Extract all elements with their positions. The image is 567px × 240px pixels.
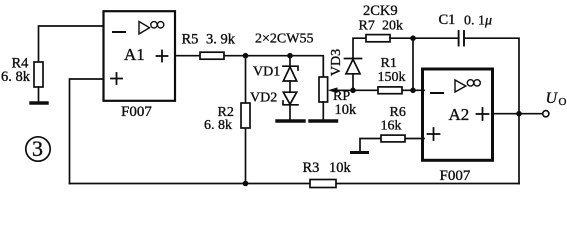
wire A1 inverting input to R4 xyxy=(39,26,104,62)
diode VD3 xyxy=(345,59,362,74)
svg-text:3: 3 xyxy=(32,136,43,161)
ground (VD2) xyxy=(277,119,304,122)
svg-text:R7: R7 xyxy=(359,19,375,34)
resistor R1 xyxy=(378,87,402,94)
svg-text:3. 9k: 3. 9k xyxy=(206,32,236,48)
node R7/C1 junction xyxy=(410,35,416,41)
svg-text:A1: A1 xyxy=(124,45,145,64)
node VD3 bottom junction xyxy=(350,88,356,94)
svg-text:R5: R5 xyxy=(182,32,199,48)
svg-text:R1: R1 xyxy=(381,56,397,71)
svg-text:2×2CW55: 2×2CW55 xyxy=(255,32,313,47)
op-amp A2 triangle-infinity symbol xyxy=(455,80,480,92)
wire RP wiper to R1 xyxy=(335,89,378,91)
wire R4 to ground xyxy=(38,87,40,102)
svg-text:16k: 16k xyxy=(381,119,402,134)
node R2-bottom junction xyxy=(243,181,249,187)
resistor R2 xyxy=(241,103,250,128)
node R7 branch junction at A2 input xyxy=(410,88,416,94)
wire A1 output to R5 xyxy=(175,55,200,57)
svg-text:R3: R3 xyxy=(303,160,320,176)
svg-text:10k: 10k xyxy=(329,160,352,176)
svg-text:C1: C1 xyxy=(439,12,456,28)
svg-text:2CK9: 2CK9 xyxy=(363,3,398,19)
wire R5 to RP top node rail xyxy=(224,56,323,77)
svg-text:U: U xyxy=(546,90,559,107)
svg-text:150k: 150k xyxy=(378,70,406,85)
svg-text:6. 8k: 6. 8k xyxy=(1,69,31,85)
svg-text:6. 8k: 6. 8k xyxy=(204,118,232,133)
resistor R7 xyxy=(366,35,390,42)
wire R2 branch xyxy=(245,56,247,184)
ground (R4) xyxy=(31,101,47,104)
svg-text:VD1: VD1 xyxy=(253,65,280,80)
svg-text:VD2: VD2 xyxy=(250,91,277,106)
svg-text:10k: 10k xyxy=(335,102,358,118)
wire R1 to A2 inverting input xyxy=(402,89,424,91)
ground (R6) xyxy=(352,151,368,154)
zener diode VD1 xyxy=(283,66,298,81)
svg-text:O: O xyxy=(559,96,567,108)
circled figure number 3 xyxy=(26,137,50,161)
resistor R6 xyxy=(381,135,405,142)
node A2 output junction xyxy=(516,111,522,117)
svg-text:0. 1μ: 0. 1μ xyxy=(464,14,492,29)
wire VD3 branch xyxy=(352,74,354,91)
ground (RP) xyxy=(310,119,337,122)
wire bottom feedback rail xyxy=(70,183,520,185)
wire R7 to C1 xyxy=(390,37,458,39)
svg-text:VD3: VD3 xyxy=(329,49,344,76)
svg-text:F007: F007 xyxy=(121,104,152,120)
wire A1 non-inverting input down-left to bottom rail xyxy=(70,79,104,184)
wire VD1 to VD2 xyxy=(289,81,291,92)
svg-text:A2: A2 xyxy=(449,105,470,124)
wire RP to ground xyxy=(322,102,324,120)
wire VD3 to R7 xyxy=(353,38,366,58)
node VD1 branch junction xyxy=(287,53,293,59)
node R2 branch junction xyxy=(243,53,249,59)
resistor R3 xyxy=(310,180,336,188)
wire A2 output to terminal xyxy=(493,113,543,115)
op-amp A2 output plus sign xyxy=(477,108,489,120)
resistor R4 xyxy=(34,62,43,87)
potentiometer RP wiper arrow xyxy=(328,87,338,93)
wire link R7 node to A2 inverting node xyxy=(412,38,414,90)
op-amp A2 xyxy=(423,69,493,160)
op-amp A1 output plus sign xyxy=(157,51,168,62)
svg-text:F007: F007 xyxy=(440,168,471,184)
wire VD2 to ground xyxy=(289,105,291,120)
terminal Uo (open circle) xyxy=(543,111,549,117)
wire node to VD1 xyxy=(289,56,291,66)
op-amp A2 input plus sign xyxy=(428,128,440,140)
op-amp A1 triangle-infinity symbol xyxy=(139,22,164,35)
resistor R5 xyxy=(200,52,224,59)
op-amp A1 xyxy=(104,11,176,101)
capacitor C1 xyxy=(459,31,464,46)
op-amp A2 minus sign xyxy=(431,92,443,94)
op-amp A1 input plus sign xyxy=(111,73,122,84)
potentiometer RP body xyxy=(319,77,328,102)
wire C1 to A2 output (right feedback) xyxy=(464,38,519,183)
wire R6 to A2 plus input xyxy=(360,139,424,152)
svg-text:20k: 20k xyxy=(382,19,403,34)
zener diode VD2 xyxy=(283,92,298,105)
op-amp A1 minus sign xyxy=(113,31,125,33)
